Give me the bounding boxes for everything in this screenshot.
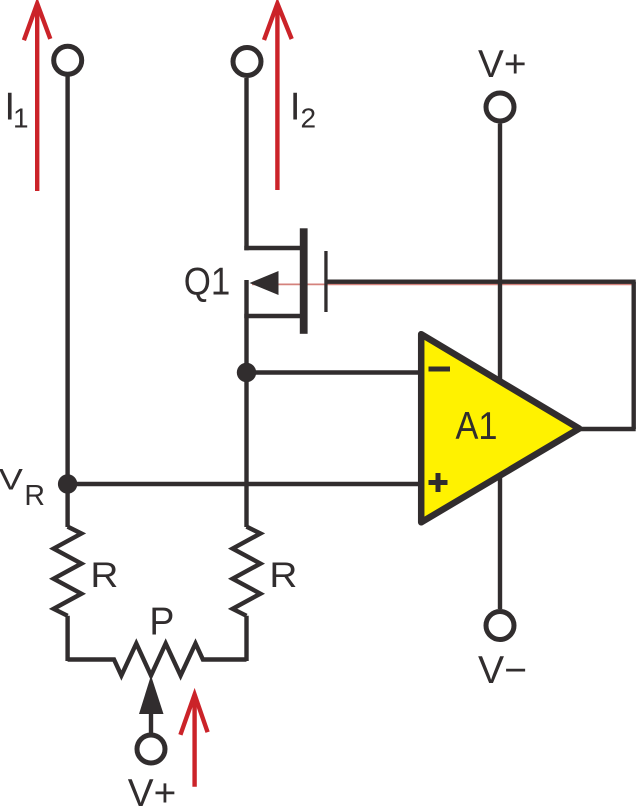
svg-text:V+: V+	[128, 772, 177, 810]
svg-text:P: P	[149, 601, 174, 644]
svg-text:2: 2	[301, 103, 317, 134]
svg-text:Q1: Q1	[184, 261, 231, 304]
svg-text:R: R	[24, 480, 45, 512]
svg-text:R: R	[90, 555, 118, 595]
svg-text:I: I	[290, 86, 301, 129]
svg-text:V−: V−	[478, 649, 527, 692]
svg-text:V+: V+	[478, 43, 527, 86]
svg-text:1: 1	[13, 103, 29, 134]
svg-text:A1: A1	[456, 405, 498, 448]
svg-text:R: R	[269, 555, 297, 595]
svg-text:V: V	[0, 463, 23, 496]
